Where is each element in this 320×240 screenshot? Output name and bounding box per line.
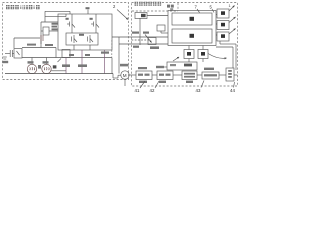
outer MCU rect (168, 11, 216, 46)
svg-text:43: 43 (196, 88, 201, 93)
wires under R2 (73, 45, 75, 50)
right connector wires (216, 46, 233, 48)
feedback box above chain (167, 62, 197, 70)
small square S3 (217, 32, 229, 41)
transistor labels (66, 18, 93, 36)
left dashed box (power board) (3, 3, 129, 80)
svg-text:5: 5 (210, 5, 213, 10)
transistor Q2 (91, 14, 99, 33)
svg-text:7: 7 (195, 5, 198, 10)
transformer T1 circle (27, 64, 36, 73)
main rect A (172, 13, 212, 25)
diode D1 (40, 35, 42, 41)
title right box text blob (135, 2, 162, 6)
svg-text:44: 44 (230, 88, 235, 93)
transistor Q1 (67, 14, 75, 33)
wire mid (22, 47, 56, 49)
chain rect CR1 (136, 71, 152, 80)
small rect above cluster (157, 25, 165, 31)
short dashed inner line (132, 39, 151, 41)
small cluster component (148, 38, 156, 45)
wire elbow left (13, 38, 15, 48)
chain rect CR2 (157, 71, 173, 80)
wire right of T2 (51, 70, 66, 72)
svg-text:41: 41 (135, 88, 140, 93)
right box inner: small box and wire (135, 13, 147, 19)
svg-text:2: 2 (113, 4, 116, 9)
IC label text (52, 23, 59, 31)
bridge block R1 in left box (58, 14, 112, 50)
wire stub above R1 (87, 10, 89, 15)
top leader arrow left box (117, 10, 128, 20)
rectifier block (14, 49, 22, 59)
wires upper-left of R1 (45, 10, 70, 12)
labels cluster (27, 44, 53, 46)
curved arrow (208, 54, 227, 59)
stubs A to S (216, 14, 217, 16)
wire bus upper (22, 57, 112, 59)
small gray labels (62, 52, 109, 68)
squares below B (184, 50, 194, 59)
vertical wires to bottom bus (65, 58, 67, 74)
svg-text:1: 1 (229, 4, 231, 8)
title left box text blob (6, 5, 40, 9)
motor label (120, 64, 129, 67)
IC U1 (PWM controller) (43, 27, 49, 35)
capacitor C1 (5, 53, 10, 55)
wire from IC left (40, 22, 42, 44)
inner dashed top border of right box (132, 10, 178, 12)
transistor Q4 inside R2 (88, 35, 94, 43)
inner block R2 (66, 33, 98, 45)
small square S2 (217, 21, 229, 30)
transistor Q3 inside R2 (72, 35, 78, 43)
right dashed box (controller) (132, 3, 238, 87)
main rect B (172, 29, 212, 43)
motor M (121, 71, 129, 79)
bottom bus (5, 73, 113, 75)
chain rect CR3 (182, 71, 197, 80)
small label above right box border (167, 5, 174, 11)
battery symbol (3, 56, 7, 58)
tall rect T (226, 68, 234, 81)
small block under R1 (62, 50, 70, 58)
transformer T2 circle (42, 64, 51, 73)
chain rect CR4 (202, 72, 219, 79)
svg-text:M: M (123, 73, 127, 78)
svg-text:42: 42 (150, 88, 155, 93)
small square S1 (217, 9, 229, 18)
wire from R1 to right box (112, 36, 168, 38)
